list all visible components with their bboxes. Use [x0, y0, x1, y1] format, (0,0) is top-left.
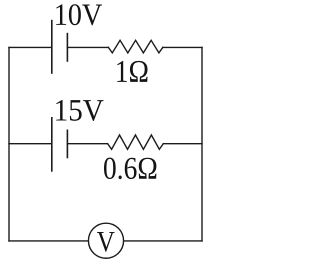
wire middle-right (resistor R2 to right border) — [163, 143, 202, 145]
battery B1 10V — [52, 21, 68, 73]
wire middle-left (left border to battery B2 long plate) — [9, 143, 52, 145]
wire left border vertical — [8, 47, 10, 241]
label 15V — [56, 100, 103, 121]
label 0.6 ohm — [104, 158, 156, 180]
wire bottom-left (left border to voltmeter) — [9, 240, 89, 242]
wire top-middle (battery B1 short plate to resistor R1) — [67, 46, 108, 48]
voltmeter letter V — [97, 232, 115, 252]
label 10V — [56, 4, 102, 25]
wire middle-centre (battery B2 short plate to resistor R2) — [67, 143, 107, 145]
battery B2 15V — [52, 118, 68, 171]
wire right border vertical — [201, 47, 203, 241]
wire bottom-right (voltmeter to right border) — [124, 240, 203, 242]
wire top-right (resistor R1 to right border corner) — [163, 46, 202, 48]
label 1 ohm — [117, 61, 147, 82]
wire top-left (left border corner to battery B1 long plate) — [9, 46, 52, 48]
resistor R1 1ohm — [108, 40, 162, 53]
voltmeter V (circle) — [88, 223, 123, 258]
resistor R2 0.6ohm — [108, 135, 164, 149]
